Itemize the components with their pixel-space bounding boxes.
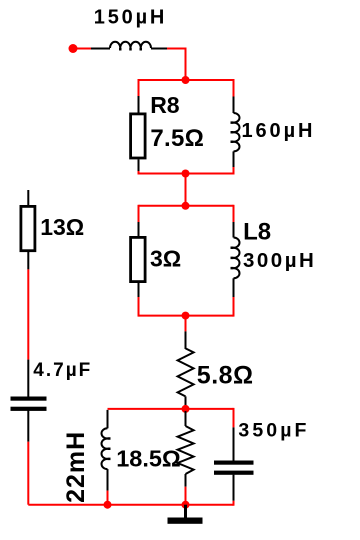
- svg-text:18.5Ω: 18.5Ω: [116, 445, 181, 471]
- wire black lead below L8: [233, 278, 235, 297]
- wire input red segment: [75, 48, 91, 50]
- capacitor 350µF: [214, 461, 254, 475]
- resistor 18.5Ω zigzag: [178, 426, 194, 474]
- svg-text:4.7µF: 4.7µF: [33, 360, 92, 381]
- node bottom of section1: [182, 170, 190, 178]
- wire red right drop section1: [233, 79, 235, 97]
- svg-text:150µH: 150µH: [94, 6, 167, 28]
- svg-text:L8: L8: [243, 219, 271, 246]
- wire black lead below 18.5Ω: [185, 474, 187, 487]
- wire red stub below 22mH: [107, 491, 109, 505]
- wire red left drop section2: [138, 205, 140, 222]
- svg-text:3Ω: 3Ω: [150, 246, 181, 272]
- wire black lead below 3Ω: [138, 283, 140, 297]
- node top of bottom section: [182, 405, 190, 413]
- wire red above 5.8Ω: [185, 316, 187, 332]
- wire black lead below 160µH: [233, 151, 235, 167]
- wire black lead below 13Ω: [27, 252, 29, 269]
- wire bottom section top rail: [108, 408, 234, 410]
- wire red stub above bottom section: [185, 405, 187, 409]
- wire black lead to 5.8Ω: [185, 331, 187, 349]
- node ground junction: [182, 501, 190, 509]
- wire black lead to R8: [138, 96, 140, 113]
- wire red right drop section2: [233, 205, 235, 222]
- node input terminal: [69, 44, 78, 53]
- inductor L8: [231, 238, 240, 279]
- wire red between section1 and section2: [185, 174, 187, 206]
- wire black lead right of L1: [151, 48, 167, 50]
- wire black lead to R 3Ω: [138, 222, 140, 237]
- wire red stub to bottom rail section1: [233, 167, 235, 175]
- svg-text:13Ω: 13Ω: [40, 214, 84, 240]
- wire section1 bottom rail: [139, 173, 234, 175]
- wire red left drop section1: [138, 79, 140, 96]
- wire black lead below 22mH: [107, 469, 109, 491]
- svg-text:300µH: 300µH: [243, 249, 316, 272]
- wire red right drop bottom section: [233, 408, 235, 428]
- wire black lead to 350µF: [233, 427, 235, 460]
- resistor 13Ω: [21, 206, 35, 250]
- wire black lead to 4.7µF: [27, 360, 29, 397]
- resistor 5.8Ω zigzag: [178, 348, 194, 396]
- capacitor 4.7µF: [11, 397, 47, 411]
- wire red left branch upper: [27, 269, 29, 359]
- wire red left branch lower: [27, 442, 29, 505]
- svg-text:5.8Ω: 5.8Ω: [197, 361, 254, 389]
- wire bottom rail: [28, 504, 233, 506]
- svg-text:7.5Ω: 7.5Ω: [150, 125, 204, 152]
- wire black lead to L8: [233, 222, 235, 238]
- wire red stub below 3Ω: [138, 297, 140, 317]
- wire section2 top rail: [139, 205, 234, 207]
- svg-text:350µF: 350µF: [238, 420, 309, 442]
- wire red stub below R8: [138, 171, 140, 175]
- node top of section2: [182, 202, 190, 210]
- ground: [168, 505, 203, 524]
- wire black lead to 22mH: [107, 410, 109, 428]
- wire section1 top rail: [139, 79, 234, 81]
- wire red stub below 18.5Ω: [185, 487, 187, 505]
- node bottom left junction: [104, 501, 112, 509]
- wire black lead below 4.7µF: [27, 411, 29, 442]
- wire red from L1 to top node: [167, 49, 186, 81]
- svg-text:160µH: 160µH: [242, 120, 316, 142]
- inductor L 150µH: [110, 42, 151, 51]
- resistor R8: [131, 114, 146, 158]
- node top of section1: [182, 76, 190, 84]
- node bottom of section2: [182, 312, 190, 320]
- wire section2 bottom rail: [139, 315, 234, 317]
- wire black lead to 18.5Ω: [185, 411, 187, 426]
- wire black lead below R8: [138, 160, 140, 172]
- wire red stub to bottom rail section2: [233, 297, 235, 317]
- inductor 22mH: [101, 428, 110, 469]
- wire black lead left of L1: [91, 48, 110, 50]
- wire red stub below 350µF: [233, 501, 235, 506]
- wire black lead below 5.8Ω: [185, 396, 187, 405]
- inductor 160µH: [231, 113, 240, 151]
- wire black stub top of 13Ω: [27, 190, 29, 206]
- wire black lead to L 160µH: [233, 97, 235, 114]
- svg-text:22mH: 22mH: [62, 431, 90, 503]
- resistor 3Ω: [131, 237, 146, 281]
- wire black lead below 350µF: [233, 475, 235, 501]
- svg-text:R8: R8: [150, 92, 180, 118]
